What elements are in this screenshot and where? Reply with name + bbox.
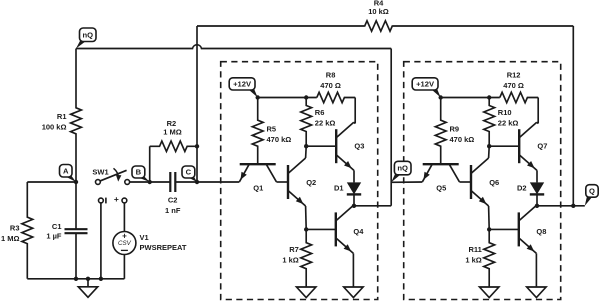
svg-text:R5: R5	[267, 125, 277, 134]
wire bottom ground rail	[27, 278, 124, 280]
wire node-C column vertical	[196, 26, 198, 182]
transistor Q7	[519, 122, 547, 170]
dashed stage box (Q1)	[221, 62, 378, 300]
wire +12V rail (Q1 stage)	[258, 97, 317, 99]
svg-text:R12: R12	[507, 70, 521, 79]
flag +12V (Q5 stage)	[412, 78, 441, 98]
resistor R2 1 MΩ	[150, 119, 197, 182]
flag node B	[132, 166, 150, 182]
dashed stage box (Q5)	[404, 62, 561, 300]
svg-text:470 kΩ: 470 kΩ	[450, 135, 475, 144]
svg-text:D2: D2	[517, 184, 527, 193]
wire D2 output to Q node	[537, 205, 585, 207]
svg-text:+12V: +12V	[233, 80, 252, 89]
svg-text:C1: C1	[52, 222, 62, 231]
svg-text:1 kΩ: 1 kΩ	[282, 256, 298, 265]
wire Q6 emitter down	[488, 206, 491, 229]
wire Q2 collector up	[305, 146, 308, 158]
svg-text:CSV: CSV	[118, 240, 132, 247]
svg-text:470 Ω: 470 Ω	[503, 81, 524, 90]
svg-text:R3: R3	[10, 224, 20, 233]
wire Q6 collector up	[488, 146, 491, 158]
resistor R10 22 kΩ	[484, 98, 519, 147]
svg-text:+12V: +12V	[416, 80, 435, 89]
flag nQ (mid)	[391, 161, 411, 182]
svg-text:nQ: nQ	[82, 30, 93, 39]
wire Q4 emitter down	[352, 253, 354, 282]
wire Q7 base	[489, 145, 519, 147]
wire D2 cathode down	[536, 194, 538, 205]
wire Q8 collector to output node	[535, 204, 538, 206]
wire R4 drop to output node	[572, 26, 574, 206]
ground (left)	[78, 279, 97, 298]
resistor R8 470 Ω	[317, 70, 355, 102]
ground (R7)	[297, 282, 316, 298]
wire Q3 emitter to D1	[353, 170, 355, 182]
svg-text:V1: V1	[140, 233, 149, 242]
ground (Q4)	[344, 282, 363, 298]
node C junction	[195, 180, 199, 184]
svg-text:100 kΩ: 100 kΩ	[42, 122, 67, 131]
svg-text:Q8: Q8	[536, 227, 546, 236]
junction R2-right	[195, 144, 199, 148]
svg-text:C: C	[186, 168, 192, 177]
svg-text:Q1: Q1	[253, 183, 263, 192]
wire Q3 base	[306, 145, 336, 147]
wire Q7 collector to R12	[537, 122, 538, 123]
svg-text:470 Ω: 470 Ω	[320, 81, 341, 90]
transistor Q5	[422, 164, 459, 192]
diode D2	[517, 182, 544, 194]
junction C1-bottom	[74, 277, 78, 281]
wire nQ node to Q5 emitter	[391, 181, 422, 183]
junction R10/Q7 base	[487, 144, 491, 148]
svg-text:Q5: Q5	[436, 183, 446, 192]
svg-text:Q: Q	[589, 187, 595, 196]
resistor R5 470 kΩ	[252, 98, 291, 165]
transistor Q8	[519, 205, 547, 253]
terminal V1 negative pin	[99, 198, 106, 279]
svg-text:B: B	[136, 168, 142, 177]
wire R4 top rail left segment	[197, 25, 364, 27]
wire R12 drop to Q7 collector	[537, 98, 539, 124]
ground (R11)	[480, 282, 499, 298]
svg-text:R8: R8	[326, 70, 336, 79]
junction D1 output	[352, 204, 356, 208]
svg-text:1 µF: 1 µF	[46, 232, 62, 241]
flag nQ (top left)	[76, 28, 96, 49]
svg-text:R6: R6	[315, 108, 325, 117]
wire Q2 emitter down	[305, 206, 308, 229]
junction R6/Q3 base	[304, 144, 308, 148]
wire D1 output to nQ node	[354, 205, 391, 207]
svg-text:R7: R7	[289, 245, 299, 254]
resistor R12 470 Ω	[500, 70, 538, 102]
capacitor C2 1 nF	[165, 172, 197, 215]
wire Q5 collector to Q6 base	[459, 181, 471, 183]
svg-text:R9: R9	[450, 125, 460, 134]
flag node A	[60, 165, 77, 183]
junction D2 output	[535, 204, 539, 208]
svg-text:10 kΩ: 10 kΩ	[368, 7, 389, 16]
wire nQ vertical drop to D1 output node	[390, 49, 392, 206]
svg-text:PWSREPEAT: PWSREPEAT	[140, 243, 187, 252]
wire Q1 collector to Q2 base	[276, 181, 288, 183]
wire R8 drop to Q3 collector	[354, 98, 356, 124]
flag node C	[182, 166, 197, 182]
svg-text:D1: D1	[334, 184, 344, 193]
transistor Q2	[288, 158, 316, 206]
wire nQ feedback top run with hop over node-C column	[76, 45, 391, 49]
resistor R9 470 kΩ	[435, 98, 474, 165]
svg-text:A: A	[63, 166, 69, 175]
svg-text:R2: R2	[167, 119, 177, 128]
junction output node	[571, 204, 575, 208]
junction +12V node (Q5 stage)	[439, 95, 443, 99]
node B junction	[148, 180, 152, 184]
svg-text:nQ: nQ	[397, 164, 408, 173]
wire node A to R3	[27, 181, 76, 183]
resistor R11 1 kΩ	[465, 229, 494, 282]
transistor Q6	[471, 158, 499, 206]
svg-text:C2: C2	[168, 196, 178, 205]
transistor Q3	[336, 122, 364, 170]
svg-text:Q2: Q2	[306, 178, 316, 187]
svg-text:Q4: Q4	[353, 227, 364, 236]
svg-text:R1: R1	[57, 112, 67, 121]
svg-text:22 kΩ: 22 kΩ	[498, 119, 519, 128]
svg-text:470 kΩ: 470 kΩ	[267, 135, 292, 144]
wire stage1 input	[197, 181, 239, 183]
resistor R1 100 kΩ	[42, 49, 82, 183]
junction V1-negative bottom	[99, 277, 103, 281]
junction R7 node	[304, 227, 308, 231]
transistor Q1	[239, 164, 276, 192]
wire Q4 collector to output node	[352, 204, 355, 206]
svg-text:1 MΩ: 1 MΩ	[1, 234, 20, 243]
svg-text:1 nF: 1 nF	[165, 206, 181, 215]
wire R4 top rail right segment	[393, 25, 574, 27]
svg-text:Q7: Q7	[537, 141, 547, 150]
junction R11 node	[487, 227, 491, 231]
wire Q7 emitter to D2	[536, 170, 538, 182]
ground (Q8)	[527, 282, 546, 298]
transistor Q4	[336, 205, 364, 253]
switch SW1	[92, 167, 129, 184]
svg-text:22 kΩ: 22 kΩ	[315, 119, 336, 128]
wire Q4 base	[306, 228, 336, 230]
wire +12V rail (Q5 stage)	[441, 97, 500, 99]
junction rail/R10	[487, 95, 491, 99]
capacitor C1 1 µF	[46, 182, 87, 279]
svg-text:+: +	[114, 194, 119, 204]
svg-text:R10: R10	[498, 108, 512, 117]
svg-text:Q3: Q3	[354, 141, 364, 150]
svg-text:R11: R11	[468, 245, 481, 254]
wire Q8 emitter down	[535, 253, 537, 282]
resistor R4 10 kΩ	[364, 0, 392, 31]
diode D1	[334, 182, 361, 194]
wire D1 cathode down	[353, 194, 355, 205]
flag +12V (Q1 stage)	[229, 78, 258, 98]
resistor R7 1 kΩ	[282, 229, 311, 282]
svg-text:SW1: SW1	[92, 167, 108, 176]
node A junction	[74, 180, 78, 184]
junction ground-stem	[86, 277, 90, 281]
svg-text:1 MΩ: 1 MΩ	[163, 128, 182, 137]
wire Q3 collector to R8	[354, 122, 355, 123]
resistor R3 1 MΩ	[1, 182, 33, 279]
svg-text:1 kΩ: 1 kΩ	[465, 256, 481, 265]
wire Q8 base	[489, 228, 519, 230]
junction +12V node (Q1 stage)	[256, 95, 260, 99]
terminal V1 positive pin	[114, 194, 127, 231]
resistor R6 22 kΩ	[301, 98, 336, 147]
source V1 PWSREPEAT	[113, 232, 187, 279]
flag Q (output)	[585, 185, 598, 206]
svg-text:Q6: Q6	[489, 178, 499, 187]
junction rail/R6	[304, 95, 308, 99]
wire SW1 to C2	[129, 181, 170, 183]
